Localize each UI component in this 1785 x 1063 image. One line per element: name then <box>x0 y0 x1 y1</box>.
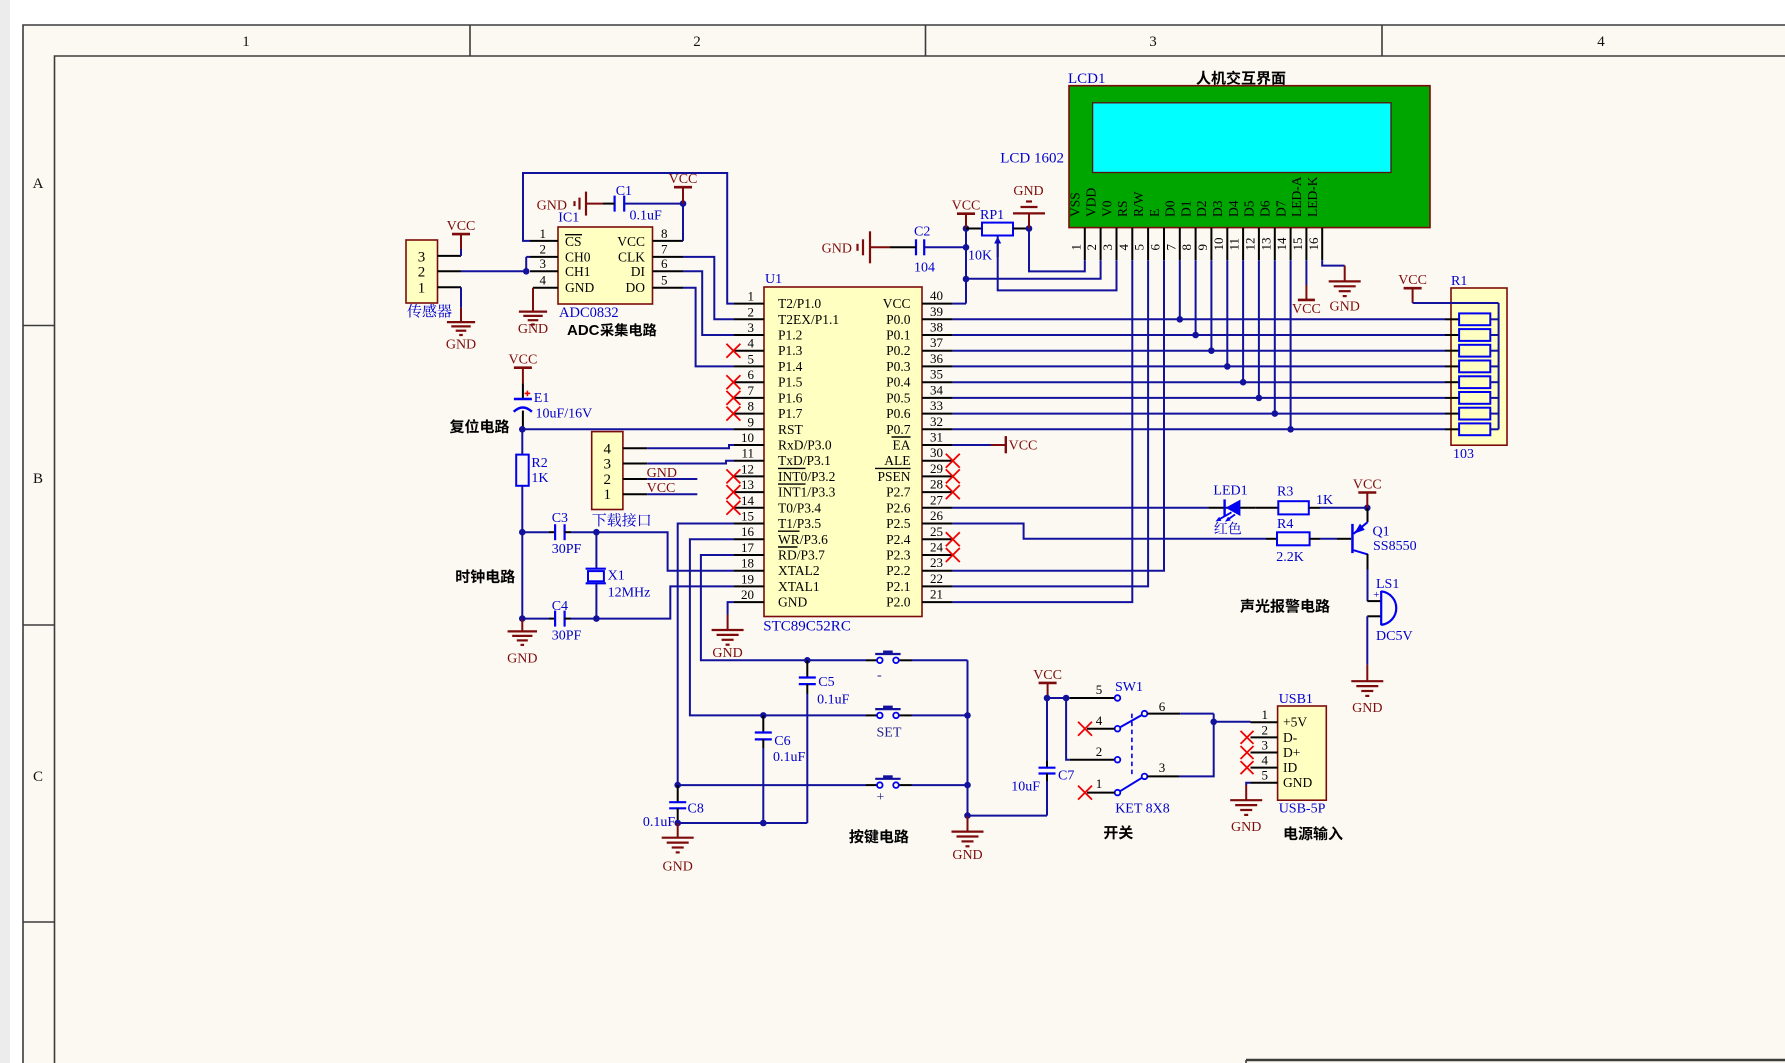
svg-text:1: 1 <box>242 34 250 50</box>
title 声光报警电路 <box>1240 599 1330 613</box>
svg-text:D-: D- <box>1283 730 1298 745</box>
svg-text:RP1: RP1 <box>980 208 1004 223</box>
wire CH0 to CH1 junction <box>526 256 530 258</box>
svg-text:28: 28 <box>930 477 943 492</box>
svg-text:1: 1 <box>1068 244 1083 251</box>
svg-text:1: 1 <box>540 226 547 241</box>
capacitor E1 10uF/16V electrolytic <box>514 383 593 429</box>
svg-text:ALE: ALE <box>884 453 910 468</box>
svg-text:P1.5: P1.5 <box>778 375 803 390</box>
connector J1 sensor (3-pin) <box>406 240 438 303</box>
net label VCC wire <box>647 493 697 495</box>
title 时钟电路 <box>456 569 515 583</box>
svg-text:17: 17 <box>741 540 755 555</box>
svg-text:P2.7: P2.7 <box>886 485 911 500</box>
svg-text:VCC: VCC <box>952 199 981 214</box>
svg-text:RS: RS <box>1115 200 1130 217</box>
node X1 bottom dot <box>593 615 600 622</box>
svg-text:VCC: VCC <box>617 234 645 249</box>
VCC symbol above rail <box>952 199 981 229</box>
svg-text:3: 3 <box>418 250 426 266</box>
svg-text:USB-5P: USB-5P <box>1279 802 1326 817</box>
resistor network R1 body <box>1451 288 1507 445</box>
svg-text:6: 6 <box>661 256 668 271</box>
wire bus to C7 bottom <box>968 815 1048 817</box>
svg-text:25: 25 <box>930 524 943 539</box>
GND sideways at C2 <box>822 231 890 263</box>
svg-text:GND: GND <box>778 595 807 610</box>
svg-text:P0.4: P0.4 <box>886 375 911 390</box>
svg-text:2: 2 <box>1084 244 1099 251</box>
svg-text:4: 4 <box>1262 753 1269 768</box>
svg-text:GND: GND <box>565 280 594 295</box>
IC IC1 ADC0832 <box>558 227 653 304</box>
GND below bus <box>952 816 984 864</box>
svg-text:9: 9 <box>748 414 755 429</box>
wire RST row <box>522 428 734 430</box>
SW1 pin1 stub with X <box>1087 792 1115 794</box>
svg-text:P1.6: P1.6 <box>778 390 803 405</box>
svg-text:P2.5: P2.5 <box>886 516 911 531</box>
SW1 pin4 stub with X <box>1087 728 1115 730</box>
svg-text:GND: GND <box>1330 299 1360 314</box>
svg-text:P0.3: P0.3 <box>886 359 911 374</box>
svg-text:16: 16 <box>1306 237 1321 251</box>
svg-text:8: 8 <box>1179 244 1194 251</box>
capacitor C5 0.1uF <box>799 660 850 707</box>
svg-text:SW1: SW1 <box>1115 680 1143 695</box>
IC1 pin names <box>565 234 645 295</box>
svg-text:4: 4 <box>748 336 755 351</box>
wire DI to U1 P1.2 <box>683 271 734 335</box>
svg-text:D1: D1 <box>1178 201 1193 218</box>
wire LCD VDD to VCC rail <box>966 260 1101 279</box>
svg-text:VCC: VCC <box>669 172 698 187</box>
svg-text:P0.6: P0.6 <box>886 406 911 421</box>
svg-text:104: 104 <box>914 261 935 276</box>
IC1 pin numbers <box>540 226 669 288</box>
capacitor C2 104 <box>890 225 935 276</box>
wire cap gnd row <box>678 822 808 824</box>
wire plus row <box>678 784 866 786</box>
node C8 bottom dot <box>674 820 681 827</box>
svg-text:12MHz: 12MHz <box>608 586 651 601</box>
svg-text:GND: GND <box>952 848 982 863</box>
svg-text:23: 23 <box>930 555 943 570</box>
GND below LS1 <box>1351 665 1383 717</box>
node USB feed dot <box>1210 719 1217 726</box>
GND above RP1 right <box>1013 184 1045 229</box>
svg-text:24: 24 <box>930 540 944 555</box>
svg-text:30: 30 <box>930 445 943 460</box>
label 传感器 (sensor) <box>407 304 451 318</box>
svg-text:LCD1: LCD1 <box>1068 71 1106 87</box>
svg-text:31: 31 <box>930 430 943 445</box>
IC1 left pin stubs <box>530 240 558 242</box>
svg-text:33: 33 <box>930 398 943 413</box>
svg-text:C3: C3 <box>552 511 568 526</box>
svg-text:GND: GND <box>1352 701 1382 716</box>
svg-text:CS: CS <box>565 234 582 249</box>
svg-text:ADC: ADC <box>567 322 600 339</box>
GND sideways at C1 <box>537 192 603 216</box>
svg-text:1: 1 <box>604 487 612 503</box>
svg-text:P0.1: P0.1 <box>886 328 910 343</box>
svg-text:C5: C5 <box>818 675 834 690</box>
LED LED1 <box>1208 483 1255 522</box>
svg-text:SET: SET <box>877 726 902 741</box>
node SET-C6 dot <box>760 712 767 719</box>
svg-text:4: 4 <box>1096 713 1103 728</box>
svg-text:E1: E1 <box>534 391 550 406</box>
capacitor C8 0.1uF <box>643 785 704 830</box>
svg-text:CH0: CH0 <box>565 250 591 265</box>
svg-text:5: 5 <box>748 351 755 366</box>
svg-text:13: 13 <box>741 477 754 492</box>
svg-text:D0: D0 <box>1163 200 1178 217</box>
svg-text:0.1uF: 0.1uF <box>643 815 676 830</box>
svg-text:E: E <box>1147 209 1162 217</box>
svg-text:7: 7 <box>748 383 755 398</box>
svg-text:P2.3: P2.3 <box>886 548 911 563</box>
svg-text:XTAL2: XTAL2 <box>778 563 820 578</box>
SW1 pin numbers <box>1096 682 1166 791</box>
svg-text:P1.3: P1.3 <box>778 343 803 358</box>
svg-text:CLK: CLK <box>618 250 645 265</box>
U1 pin names <box>778 296 911 609</box>
svg-text:C7: C7 <box>1058 769 1074 784</box>
svg-text:20: 20 <box>741 587 754 602</box>
svg-text:D7: D7 <box>1273 200 1288 217</box>
GND below C8 <box>662 823 694 875</box>
wire LCD E to U1 P2.2 <box>952 260 1164 571</box>
svg-text:INT1/P3.3: INT1/P3.3 <box>778 485 836 500</box>
svg-text:P1.2: P1.2 <box>778 328 802 343</box>
svg-text:18: 18 <box>741 556 754 571</box>
svg-text:D5: D5 <box>1242 200 1257 217</box>
svg-text:15: 15 <box>1290 238 1305 251</box>
svg-text:U1: U1 <box>765 272 782 287</box>
svg-text:37: 37 <box>930 335 944 350</box>
title 人机交互界面 <box>1196 71 1285 85</box>
svg-text:2: 2 <box>604 472 612 488</box>
svg-text:RST: RST <box>778 422 804 437</box>
title block top line <box>1246 1059 1785 1061</box>
svg-text:10uF/16V: 10uF/16V <box>536 407 593 422</box>
node X1 top dot <box>593 529 600 536</box>
svg-text:VCC: VCC <box>1353 478 1382 493</box>
svg-text:DI: DI <box>631 264 646 279</box>
svg-text:GND: GND <box>446 338 476 353</box>
GND at sensor pin1 <box>446 287 476 352</box>
speaker LS1 <box>1367 577 1412 644</box>
svg-text:10: 10 <box>1211 238 1226 251</box>
svg-text:D6: D6 <box>1258 200 1273 217</box>
svg-text:P2.1: P2.1 <box>886 579 910 594</box>
svg-text:16: 16 <box>741 524 755 539</box>
potentiometer RP1 10K <box>966 208 1013 264</box>
wire VCC to R1 common rail <box>1413 302 1499 304</box>
svg-text:30PF: 30PF <box>552 629 582 644</box>
svg-text:GND: GND <box>1231 820 1261 835</box>
svg-text:GND: GND <box>712 646 742 661</box>
svg-text:D2: D2 <box>1194 201 1209 218</box>
title 开关 <box>1104 825 1133 839</box>
svg-text:VCC: VCC <box>447 219 476 234</box>
wire LCD V0 to RP1 wiper <box>998 237 1117 291</box>
net label GND wire <box>647 478 697 480</box>
svg-text:Q1: Q1 <box>1373 525 1390 540</box>
GND at U1 pin20 <box>712 602 744 661</box>
svg-text:P0.0: P0.0 <box>886 312 911 327</box>
svg-text:GND: GND <box>663 860 693 875</box>
svg-text:P0.2: P0.2 <box>886 343 910 358</box>
svg-text:19: 19 <box>741 571 754 586</box>
svg-text:+: + <box>1373 589 1379 601</box>
svg-text:2.2K: 2.2K <box>1276 550 1304 565</box>
node C6 bottom dot <box>760 820 767 827</box>
svg-text:1: 1 <box>1262 707 1269 722</box>
node C3 junction dot <box>519 529 526 536</box>
capacitor C3 30PF <box>522 511 581 557</box>
svg-text:26: 26 <box>930 508 944 523</box>
P0 bus wires U1 to R1 <box>952 319 1445 429</box>
svg-text:GND: GND <box>1013 184 1043 199</box>
svg-text:2: 2 <box>540 242 547 257</box>
resistor R4 2.2K <box>1266 517 1320 565</box>
sensor pin stubs <box>438 255 462 257</box>
wire U1 WR/P3.6 to SET row <box>690 539 866 715</box>
node bus plus dot <box>964 782 971 789</box>
connector USB1 USB-5P <box>1278 706 1327 800</box>
svg-text:LS1: LS1 <box>1376 577 1399 592</box>
svg-text:10: 10 <box>741 430 754 445</box>
title 电源输入 <box>1285 826 1343 840</box>
svg-text:8: 8 <box>748 399 755 414</box>
node RP1 right dot <box>1026 225 1033 232</box>
U1 pin stubs and numbers <box>734 288 952 602</box>
node dots on VCC rail <box>963 225 970 232</box>
node VCC-C1 junction dot <box>680 200 687 207</box>
svg-text:4: 4 <box>604 441 612 457</box>
svg-text:3: 3 <box>540 256 547 271</box>
svg-text:P2.6: P2.6 <box>886 500 911 515</box>
svg-text:13: 13 <box>1258 238 1273 251</box>
capacitor C1 0.1uF <box>603 184 662 224</box>
MCU U1 STC89C52RC body <box>764 287 922 617</box>
svg-text:GND: GND <box>537 199 567 214</box>
wire C4 to X1 node <box>571 618 596 620</box>
svg-text:STC89C52RC: STC89C52RC <box>763 619 851 635</box>
svg-text:40: 40 <box>930 288 943 303</box>
LCD screen <box>1093 103 1391 173</box>
node VCC-C7 dot <box>1044 695 1051 702</box>
LCD pin labels rotated <box>1068 176 1320 217</box>
svg-text:X1: X1 <box>608 569 625 584</box>
download connector stubs <box>623 447 647 449</box>
wire X1 top to XTAL2 <box>596 532 734 571</box>
svg-text:RxD/P3.0: RxD/P3.0 <box>778 438 832 453</box>
svg-text:6: 6 <box>1159 699 1166 714</box>
capacitor C4 30PF <box>522 599 581 644</box>
svg-text:ADC0832: ADC0832 <box>559 305 619 321</box>
svg-text:C8: C8 <box>688 802 704 817</box>
svg-text:1K: 1K <box>1316 493 1333 508</box>
svg-text:VDD: VDD <box>1083 188 1098 217</box>
svg-text:7: 7 <box>661 242 668 257</box>
svg-text:P2.4: P2.4 <box>886 532 911 547</box>
svg-text:3: 3 <box>1159 760 1166 775</box>
capacitor C6 0.1uF <box>755 715 806 765</box>
svg-text:-: - <box>877 668 882 683</box>
wires buttons to right bus <box>912 659 968 661</box>
svg-text:D+: D+ <box>1283 745 1300 760</box>
svg-text:VCC: VCC <box>1292 302 1321 317</box>
svg-text:T2/P1.0: T2/P1.0 <box>778 296 821 311</box>
svg-text:PSEN: PSEN <box>877 469 910 484</box>
svg-text:10uF: 10uF <box>1011 780 1040 795</box>
svg-text:0.1uF: 0.1uF <box>817 693 850 708</box>
U1 no-connect X marks <box>726 344 959 562</box>
svg-text:2: 2 <box>748 304 755 319</box>
svg-text:D3: D3 <box>1210 200 1225 217</box>
USB1 pin names <box>1283 715 1312 791</box>
wire CS to U1 pin1 <box>523 173 734 304</box>
svg-text:C6: C6 <box>774 734 790 749</box>
svg-text:VCC: VCC <box>883 296 911 311</box>
svg-text:1: 1 <box>1096 776 1103 791</box>
svg-text:21: 21 <box>930 587 943 602</box>
wire C1 to VCC node <box>624 203 683 205</box>
wire LCD RS to U1 P2.0 <box>952 260 1132 602</box>
resistor R2 1K <box>516 429 548 486</box>
wire R4 to Q1 base <box>1320 538 1337 540</box>
wire C2 to VCC rail <box>924 246 966 248</box>
svg-text:V0: V0 <box>1099 200 1114 217</box>
svg-text:103: 103 <box>1453 447 1474 462</box>
VCC at E1 <box>509 353 538 384</box>
switch SW1 KET 8X8 <box>1115 680 1170 817</box>
VCC above C1 node <box>669 172 698 203</box>
svg-text:2: 2 <box>418 265 426 281</box>
svg-text:LED-K: LED-K <box>1305 176 1320 217</box>
svg-text:P2.2: P2.2 <box>886 563 910 578</box>
svg-text:C2: C2 <box>914 225 930 240</box>
svg-text:GND: GND <box>647 466 677 481</box>
svg-text:3: 3 <box>748 320 755 335</box>
SW1 pin6 stub <box>1147 713 1180 715</box>
USB1 pin stubs and numbers <box>1251 707 1278 783</box>
svg-text:1: 1 <box>748 289 755 304</box>
push button plus <box>866 775 912 805</box>
svg-text:P0.7: P0.7 <box>886 422 911 437</box>
GND below clock chain <box>507 619 537 667</box>
svg-text:R2: R2 <box>531 456 547 471</box>
svg-text:27: 27 <box>930 492 944 507</box>
wire to SW1 pin2 <box>1066 698 1070 760</box>
wire sensor pin2 to ADC CH0/CH1 <box>461 270 526 272</box>
svg-text:1: 1 <box>418 281 426 297</box>
svg-text:7: 7 <box>1163 244 1178 251</box>
crystal X1 12MHz <box>586 532 651 618</box>
title 复位电路 <box>450 419 509 433</box>
svg-text:DC5V: DC5V <box>1376 629 1413 644</box>
USB1 no-connect X marks <box>1241 731 1254 744</box>
svg-text:B: B <box>33 471 43 487</box>
LCD pin lines and numbers <box>1068 228 1322 261</box>
wire R3 to VCC node <box>1320 507 1367 509</box>
svg-text:R/W: R/W <box>1131 191 1146 217</box>
wire U1 T1/P3.5 to plus row <box>678 524 734 786</box>
node bus SET dot <box>964 712 971 719</box>
svg-text:R3: R3 <box>1277 485 1293 500</box>
wire C5 bottom to gnd row <box>806 694 808 823</box>
svg-text:GND: GND <box>518 322 548 337</box>
VCC above R3 <box>1353 478 1382 508</box>
node CH1 junction dot <box>523 268 530 275</box>
SW1 pin3 stub <box>1147 775 1179 777</box>
node minus-C5 dot <box>804 657 811 664</box>
wire DO to U1 P1.4 <box>683 288 734 367</box>
svg-text:KET 8X8: KET 8X8 <box>1115 802 1170 817</box>
svg-text:11: 11 <box>1227 238 1242 251</box>
LCD1 module body <box>1069 86 1430 228</box>
svg-text:VCC: VCC <box>509 353 538 368</box>
wire VCC to SW1 pin5 <box>1047 697 1070 699</box>
wire LCD R/W to U1 P2.1 <box>952 260 1148 586</box>
svg-text:4: 4 <box>1597 34 1605 50</box>
wire LS1 to GND <box>1366 616 1368 664</box>
svg-text:T0/P3.4: T0/P3.4 <box>778 500 821 515</box>
title ADC采集电路 <box>567 322 657 339</box>
svg-text:LED1: LED1 <box>1213 483 1247 498</box>
svg-text:INT0/P3.2: INT0/P3.2 <box>778 469 835 484</box>
svg-text:P1.7: P1.7 <box>778 406 803 421</box>
svg-text:2: 2 <box>1096 744 1103 759</box>
transistor Q1 SS8550 PNP <box>1351 508 1416 601</box>
title 按键电路 <box>849 829 908 843</box>
node switch feed dot <box>1063 695 1070 702</box>
svg-text:VCC: VCC <box>1398 273 1427 288</box>
svg-text:6: 6 <box>748 367 755 382</box>
node plus-C8 dot <box>674 782 681 789</box>
svg-text:30PF: 30PF <box>552 542 582 557</box>
wire R2 to GND chain <box>521 486 523 619</box>
svg-text:8: 8 <box>661 226 668 241</box>
svg-text:GND: GND <box>822 242 852 257</box>
VCC at sensor pin3 <box>447 219 476 256</box>
svg-text:+5V: +5V <box>1283 715 1307 730</box>
GND at LCD LED-K pin16 <box>1322 260 1361 314</box>
RP1 right terminal stub <box>1013 228 1029 230</box>
svg-text:A: A <box>33 176 44 192</box>
svg-text:WR/P3.6: WR/P3.6 <box>778 532 828 547</box>
svg-text:EA: EA <box>893 438 911 453</box>
svg-text:1K: 1K <box>531 471 548 486</box>
svg-text:3: 3 <box>1262 738 1269 753</box>
svg-text:14: 14 <box>741 493 755 508</box>
wire C3 to X1 node <box>571 531 596 533</box>
svg-text:D4: D4 <box>1226 200 1241 217</box>
svg-text:10K: 10K <box>968 249 992 264</box>
svg-text:C: C <box>33 769 43 785</box>
push button minus <box>866 651 912 684</box>
svg-text:3: 3 <box>1149 34 1157 50</box>
column numbers <box>242 34 1605 50</box>
svg-text:29: 29 <box>930 461 943 476</box>
svg-text:VSS: VSS <box>1068 192 1083 217</box>
IC1 right pin stubs <box>653 240 684 242</box>
